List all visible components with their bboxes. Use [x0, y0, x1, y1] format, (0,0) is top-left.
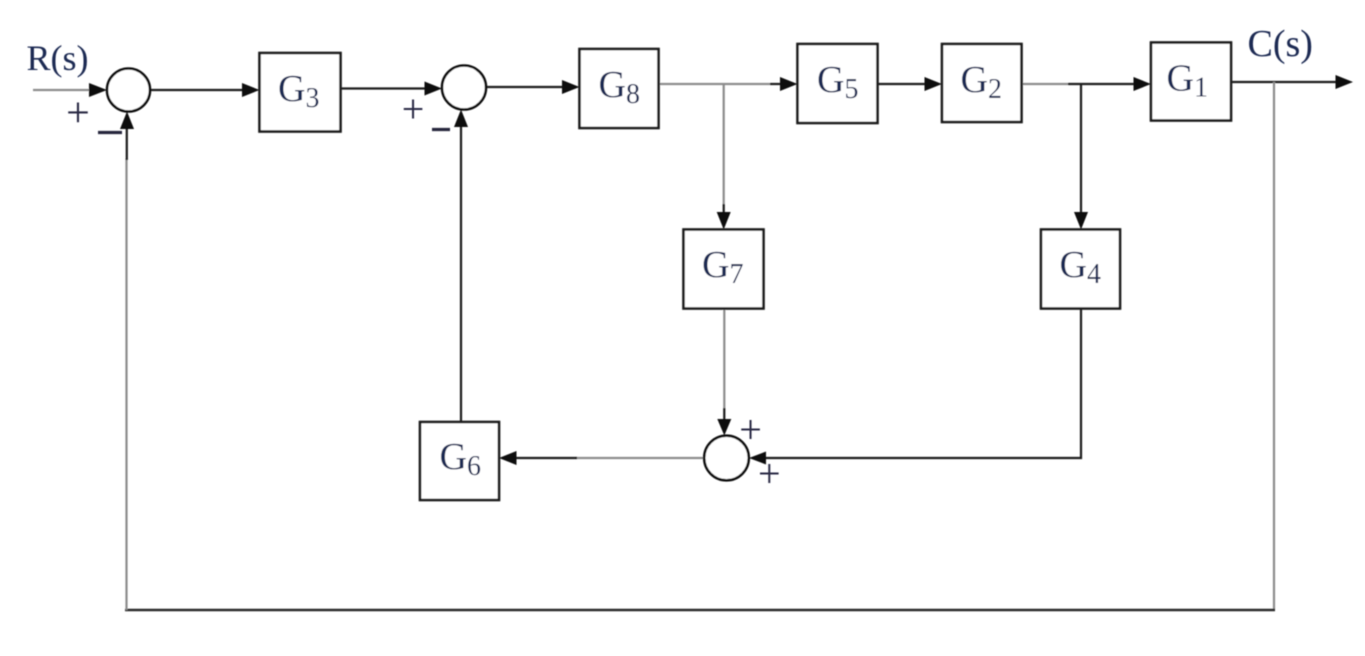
- svg-text:+: +: [758, 451, 781, 496]
- svg-text:+: +: [739, 407, 762, 452]
- svg-text:R(s): R(s): [27, 38, 89, 78]
- svg-text:C(s): C(s): [1248, 23, 1313, 65]
- svg-text:+: +: [66, 91, 90, 137]
- svg-text:+: +: [402, 87, 425, 132]
